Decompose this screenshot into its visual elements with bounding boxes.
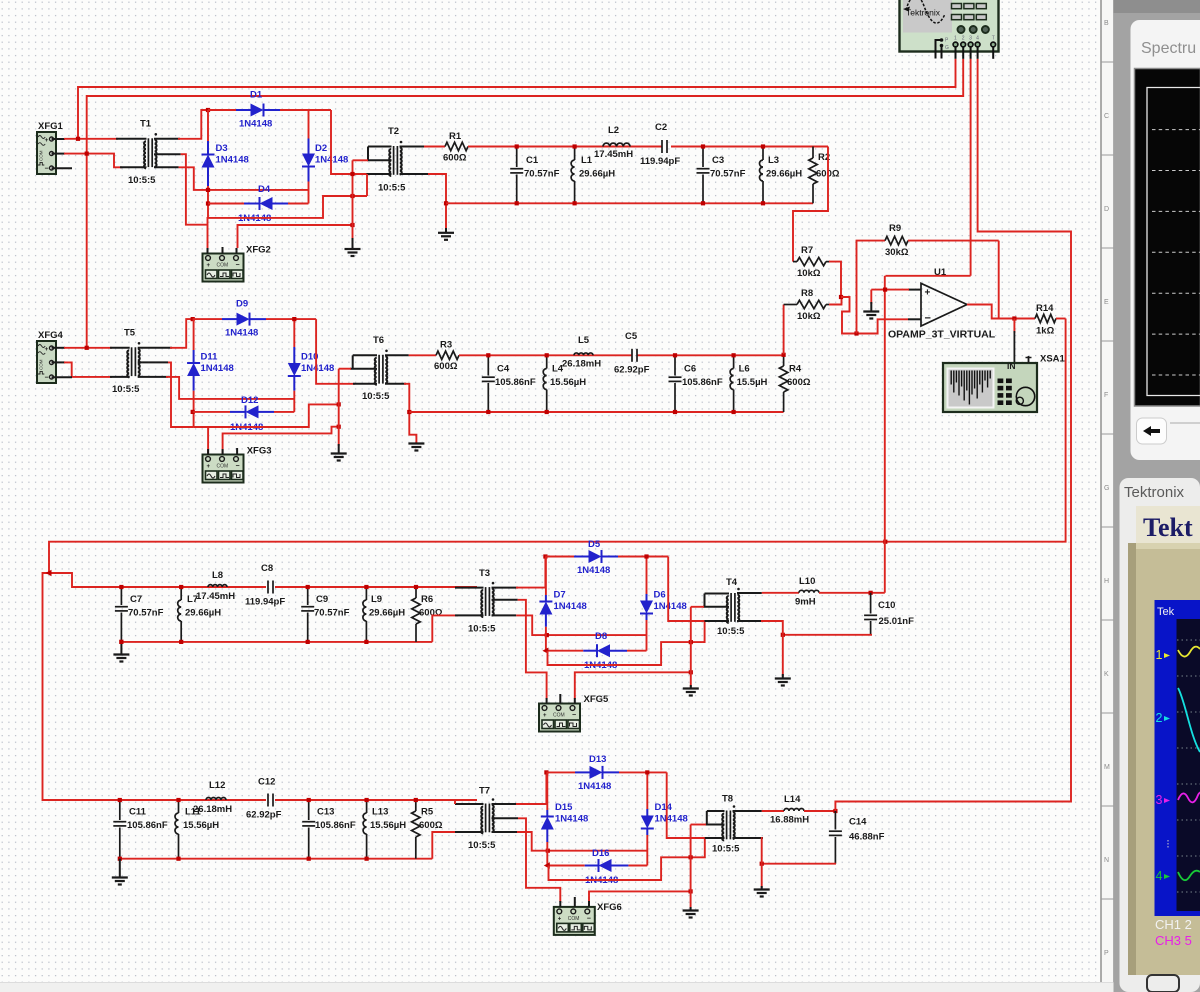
svg-text:15.56µH: 15.56µH bbox=[550, 377, 586, 388]
svg-text:−: − bbox=[236, 463, 240, 470]
inductor L13 15.56uH bbox=[366, 800, 368, 813]
wire T8 primary bottom from ring4 bbox=[705, 837, 725, 839]
scope waveform ch4 green bbox=[1178, 871, 1200, 881]
svg-text:Tektronix: Tektronix bbox=[1124, 484, 1185, 501]
scope waveform ch3 magenta bbox=[1178, 792, 1200, 802]
wire T8 primary top tie bbox=[707, 810, 725, 812]
wire row1 output to R7 bbox=[793, 147, 828, 262]
svg-text:D13: D13 bbox=[589, 754, 606, 765]
svg-text:G: G bbox=[945, 45, 949, 51]
svg-text:IN: IN bbox=[1007, 361, 1016, 371]
inductor L3 29.66uH bbox=[762, 147, 764, 161]
svg-text:70.57nF: 70.57nF bbox=[314, 608, 350, 619]
ground under T2 bbox=[445, 228, 447, 233]
svg-text:T7: T7 bbox=[479, 786, 490, 797]
node ring4 D14 top bbox=[645, 770, 649, 774]
wire XFG1 - stub bbox=[52, 167, 73, 169]
wire XFG3 left pin rail H3 row2 bbox=[207, 427, 209, 455]
capacitor C12 62.92pF (series) bbox=[267, 794, 269, 807]
diode D15 1N4148 (vertical) bbox=[546, 772, 548, 810]
inductor L5 26.18mH (series) bbox=[574, 353, 593, 355]
tektronix oscilloscope window bbox=[1120, 478, 1200, 992]
wire T5 center tap to H3 rail bbox=[138, 361, 168, 363]
diode D13 1N4148 bbox=[575, 771, 590, 773]
svg-text:17.45mH: 17.45mH bbox=[196, 591, 235, 602]
svg-text:C13: C13 bbox=[317, 807, 334, 818]
svg-text:C2: C2 bbox=[655, 122, 667, 133]
svg-text:4: 4 bbox=[976, 36, 979, 42]
svg-text:+: + bbox=[543, 713, 547, 719]
function generator XFG2 bbox=[203, 254, 244, 282]
svg-text:10:5:5: 10:5:5 bbox=[378, 183, 406, 194]
diode D9 1N4148 bbox=[222, 318, 237, 320]
svg-text:C7: C7 bbox=[130, 594, 142, 605]
svg-text:C12: C12 bbox=[258, 777, 275, 788]
transformer T5 bbox=[131, 347, 133, 376]
wire T2 secondary top to R1 bbox=[400, 146, 425, 148]
svg-text:D3: D3 bbox=[216, 143, 228, 154]
svg-text:−: − bbox=[45, 375, 49, 382]
svg-text:R7: R7 bbox=[801, 245, 813, 256]
svg-text:+: + bbox=[207, 464, 211, 470]
svg-text:1N4148: 1N4148 bbox=[655, 814, 688, 825]
svg-text:L13: L13 bbox=[372, 807, 388, 818]
wire T2 center tap to ground bbox=[367, 159, 392, 161]
wire rail3 to T3 primary top bbox=[455, 587, 484, 589]
svg-text:2: 2 bbox=[1156, 711, 1163, 725]
wire T6 primary top tie bbox=[353, 354, 377, 356]
svg-text:C14: C14 bbox=[849, 817, 867, 828]
node ring2 top-left bbox=[191, 317, 195, 321]
inductor L7 29.66uH bbox=[180, 587, 182, 600]
diode D10 1N4148 (vertical) bbox=[293, 319, 295, 347]
wire ring4 top rail bbox=[546, 771, 575, 773]
svg-text:10:5:5: 10:5:5 bbox=[468, 624, 496, 635]
wire D10 anode down to D12 rail bbox=[293, 391, 295, 412]
transformer T7 bbox=[485, 804, 487, 833]
scope bottom button bbox=[1147, 975, 1179, 992]
svg-text:L8: L8 bbox=[212, 570, 223, 581]
node feed to opamp+ tap bbox=[883, 540, 887, 544]
svg-text:26.18mH: 26.18mH bbox=[562, 359, 601, 370]
svg-text:105.86nF: 105.86nF bbox=[495, 377, 536, 388]
wire top bus 2 (scope ch2) bbox=[87, 59, 964, 348]
node feedback junction bbox=[854, 331, 858, 335]
sheet border column bbox=[1101, 0, 1114, 982]
svg-text:XFG4: XFG4 bbox=[38, 330, 64, 341]
svg-text:1N4148: 1N4148 bbox=[201, 363, 234, 374]
inductor L11 15.56uH bbox=[178, 800, 180, 813]
wire row3 filter top rail bbox=[72, 586, 266, 588]
transformer T6 bbox=[378, 355, 380, 384]
svg-text:L14: L14 bbox=[784, 794, 801, 805]
capacitor C4 105.86nF bbox=[487, 355, 489, 375]
svg-text:70.57nF: 70.57nF bbox=[710, 169, 746, 180]
svg-text:P: P bbox=[1104, 950, 1109, 957]
wire feed from scope/XSA down to row4 bbox=[835, 59, 1071, 811]
svg-text:15.56µH: 15.56µH bbox=[183, 820, 219, 831]
capacitor C10 25.01nF bbox=[870, 593, 872, 614]
svg-text:29.66µH: 29.66µH bbox=[766, 169, 802, 180]
svg-text:Tekt: Tekt bbox=[1143, 513, 1193, 542]
node D15 H1 crossing bbox=[546, 849, 550, 853]
wire ring1 right corner to T2 bottom bbox=[331, 110, 367, 174]
svg-text:D15: D15 bbox=[555, 802, 573, 813]
svg-text:D12: D12 bbox=[241, 395, 258, 406]
svg-text:T5: T5 bbox=[124, 328, 136, 339]
svg-text:15.5µH: 15.5µH bbox=[737, 377, 768, 388]
svg-text:L12: L12 bbox=[209, 780, 225, 791]
capacitor C5 62.92pF (series) bbox=[631, 349, 633, 362]
resistor R6 600ohm bbox=[415, 587, 417, 598]
wire ring2 right corner to T6 bottom bbox=[316, 319, 355, 384]
ground at opamp + bbox=[870, 290, 872, 304]
svg-text:R1: R1 bbox=[449, 131, 462, 142]
svg-text:R3: R3 bbox=[440, 340, 452, 351]
wire H3 rail row4 to T8 bbox=[549, 838, 705, 880]
tektronix logo strip bbox=[1136, 506, 1200, 543]
wire row2 filter top rail bbox=[459, 354, 632, 356]
wire XFG1 COM to T1 bottom bbox=[52, 153, 66, 155]
svg-text:1N4148: 1N4148 bbox=[225, 328, 258, 339]
wire D3 anode to lower rails bbox=[207, 186, 209, 218]
svg-text:119.94pF: 119.94pF bbox=[245, 597, 285, 608]
transformer T2 bbox=[393, 146, 395, 175]
function generator XFG4 bbox=[37, 341, 56, 383]
wire ring3 top rail bbox=[545, 556, 574, 558]
wire R8 to sum node bbox=[829, 297, 842, 305]
wire R14 output long feed to demodulators bbox=[49, 319, 1066, 588]
oscilloscope front panel bbox=[1128, 543, 1200, 975]
wire T6 secondary bottom to ground bus row2 bbox=[385, 383, 406, 385]
svg-text:CH3 5: CH3 5 bbox=[1155, 933, 1192, 948]
spectrum analyzer XSA1 icon bbox=[943, 363, 1037, 412]
svg-text:H: H bbox=[1104, 578, 1109, 585]
resistor R2 600ohm bbox=[812, 147, 814, 159]
node H3 row4 stem crossing bbox=[689, 855, 693, 859]
wire row3 bottom bus bbox=[121, 641, 432, 643]
svg-text:R9: R9 bbox=[889, 223, 901, 234]
wire C14 return rail bbox=[762, 863, 836, 865]
svg-text:D14: D14 bbox=[655, 802, 673, 813]
wire T1 secondary top to ring bbox=[154, 138, 180, 140]
op-amp U1 OPAMP_3T_VIRTUAL bbox=[921, 283, 967, 326]
canvas bottom scrollbar bbox=[0, 982, 1114, 992]
svg-text:10:5:5: 10:5:5 bbox=[128, 175, 156, 186]
svg-text:C10: C10 bbox=[878, 600, 895, 611]
wire row4 bottom bus bbox=[120, 858, 433, 860]
svg-text:L2: L2 bbox=[608, 125, 619, 136]
node bus2 XFG4+ bbox=[85, 346, 89, 350]
wire XFG1 + to T1 bbox=[52, 138, 66, 140]
XSA1 T pin stub bbox=[1028, 356, 1030, 363]
capacitor C14 46.88nF bbox=[834, 811, 836, 830]
svg-text:70.57nF: 70.57nF bbox=[128, 608, 164, 619]
node row1 bus at T2 bbox=[444, 201, 448, 205]
svg-text:E: E bbox=[1104, 299, 1109, 306]
svg-text:105.86nF: 105.86nF bbox=[127, 820, 168, 831]
inductor L6 15.56uH bbox=[733, 355, 735, 368]
svg-text:D6: D6 bbox=[654, 590, 666, 601]
svg-text:9mH: 9mH bbox=[795, 597, 816, 608]
resistor R4 600ohm bbox=[783, 355, 785, 366]
svg-text:D9: D9 bbox=[236, 299, 248, 310]
svg-text:COM: COM bbox=[553, 713, 565, 719]
svg-text:L3: L3 bbox=[768, 155, 779, 166]
svg-text:25.01nF: 25.01nF bbox=[879, 616, 915, 627]
svg-text:600Ω: 600Ω bbox=[443, 153, 467, 164]
wire feedback to output bbox=[998, 241, 1000, 319]
diode D6 1N4148 (vertical) bbox=[646, 557, 648, 595]
diode D11 1N4148 (vertical) bbox=[193, 319, 195, 350]
svg-text:L9: L9 bbox=[371, 594, 382, 605]
wire XSA1 IN drop bbox=[1013, 319, 1015, 334]
svg-text:1N4148: 1N4148 bbox=[577, 565, 610, 576]
svg-text:T1: T1 bbox=[140, 119, 152, 130]
svg-text:−: − bbox=[45, 166, 49, 173]
inductor L2 17.45mH (series) bbox=[603, 143, 630, 146]
spectrum back button bbox=[1137, 418, 1167, 444]
svg-text:R14: R14 bbox=[1036, 303, 1054, 314]
svg-text:1N4148: 1N4148 bbox=[301, 363, 334, 374]
inductor L1 29.66uH bbox=[574, 147, 576, 161]
diode D8 1N4148 (horizontal) bbox=[546, 650, 583, 652]
diode D2 1N4148 (vertical) bbox=[308, 110, 310, 139]
svg-text:3: 3 bbox=[969, 36, 972, 42]
svg-text:62.92pF: 62.92pF bbox=[614, 365, 650, 376]
svg-text:T: T bbox=[992, 36, 995, 42]
ground ring3 center bbox=[690, 685, 692, 689]
svg-text:29.66µH: 29.66µH bbox=[185, 608, 221, 619]
svg-text:Spectru: Spectru bbox=[1141, 40, 1196, 57]
wire XFG4 - stub bbox=[52, 376, 73, 378]
svg-text:COM: COM bbox=[39, 359, 44, 370]
node D4 rail start bbox=[206, 201, 210, 205]
svg-text:1N4148: 1N4148 bbox=[578, 781, 611, 792]
ground under C11 bbox=[119, 859, 121, 878]
svg-text:29.66µH: 29.66µH bbox=[579, 169, 615, 180]
wire T7 secondary bottom to H1 rail row4 bbox=[492, 831, 518, 833]
svg-text:Tek: Tek bbox=[1157, 606, 1175, 618]
node XFG5 rail stem junction bbox=[689, 670, 693, 674]
node opamp+ tap bbox=[883, 288, 887, 292]
wire bus4 to T7 primary bottom bbox=[432, 832, 458, 859]
svg-text:−: − bbox=[925, 313, 931, 325]
wire T6 primary bottom from ring2 bbox=[353, 383, 377, 385]
node T2 tangle dots bbox=[350, 172, 354, 176]
svg-text:70.57nF: 70.57nF bbox=[524, 169, 560, 180]
wire D15 anode down to D16 rail bbox=[546, 842, 548, 866]
node H5 ground stem crossing bbox=[350, 194, 354, 198]
resistor R9 30kohm (feedback) bbox=[857, 241, 886, 334]
wire D7 anode down to D8 rail bbox=[545, 627, 547, 651]
oscilloscope XSC1 icon (Tektronix) bbox=[900, 0, 999, 52]
wire bus3 to T3 primary bottom bbox=[432, 615, 458, 642]
wire T2 secondary bottom to ground bus bbox=[400, 173, 431, 175]
svg-text:COM: COM bbox=[568, 916, 580, 922]
node H5 row2 stem junction bbox=[337, 402, 341, 406]
svg-text:1N4148: 1N4148 bbox=[216, 155, 249, 166]
svg-text:1N4148: 1N4148 bbox=[555, 814, 588, 825]
svg-text:1N4148: 1N4148 bbox=[654, 601, 687, 612]
svg-text:10kΩ: 10kΩ bbox=[797, 311, 821, 322]
svg-text:D11: D11 bbox=[201, 352, 219, 363]
svg-text:10kΩ: 10kΩ bbox=[797, 268, 821, 279]
svg-text:R4: R4 bbox=[789, 364, 802, 375]
diode D14 1N4148 (vertical) bbox=[646, 772, 648, 809]
svg-text:119.94pF: 119.94pF bbox=[640, 156, 680, 167]
wire T8 center tap to ground bbox=[705, 824, 725, 826]
svg-text:T6: T6 bbox=[373, 335, 384, 346]
svg-text:1: 1 bbox=[1156, 648, 1163, 662]
svg-text:T8: T8 bbox=[722, 794, 733, 805]
wire T3 secondary bottom to H1 rail row3 bbox=[492, 614, 517, 616]
svg-text:−: − bbox=[572, 712, 576, 719]
wire XFG5 right pin rail bbox=[575, 672, 691, 699]
ground for T6 center tap bbox=[338, 444, 340, 454]
function generator XFG5 bbox=[539, 704, 580, 732]
wire T4 center tap to ground bbox=[703, 606, 729, 608]
wire D6 anode down to D8 rail bbox=[646, 620, 648, 651]
svg-text:OPAMP_3T_VIRTUAL: OPAMP_3T_VIRTUAL bbox=[888, 329, 996, 341]
svg-text:46.88nF: 46.88nF bbox=[849, 832, 885, 843]
svg-text:+: + bbox=[925, 288, 931, 299]
svg-text:30kΩ: 30kΩ bbox=[885, 247, 909, 258]
inductor L4 15.56uH bbox=[546, 355, 548, 368]
node D7 H1 crossing bbox=[545, 633, 549, 637]
transformer T3 bbox=[485, 587, 487, 616]
svg-text:COM: COM bbox=[217, 263, 229, 269]
svg-text:D: D bbox=[1104, 206, 1109, 213]
capacitor C13 105.86nF bbox=[308, 800, 310, 820]
wire T6 center tap to ground bbox=[350, 368, 377, 370]
wire XFG3 mid pin rail H4 row2 bbox=[223, 427, 339, 455]
wire scope ch3 drop bbox=[970, 59, 972, 276]
svg-text:D16: D16 bbox=[592, 848, 609, 859]
wire ring4 right corner to T8 bottom bbox=[667, 772, 706, 838]
node sum junction bbox=[839, 295, 843, 299]
wire T4 primary bottom from ring3 bbox=[705, 620, 730, 622]
node output R14 junction bbox=[1012, 316, 1016, 320]
wire opamp output bbox=[967, 305, 1035, 319]
wire T3 center tap to XFG5 left pin bbox=[492, 599, 518, 601]
svg-text:26.18mH: 26.18mH bbox=[193, 804, 232, 815]
wire T6 secondary top to R3 bbox=[385, 354, 409, 356]
function generator XFG6 bbox=[554, 907, 595, 935]
node H3 stem crossing bbox=[689, 640, 693, 644]
svg-text:+: + bbox=[558, 916, 562, 922]
svg-text:G: G bbox=[1104, 485, 1109, 492]
svg-text:C4: C4 bbox=[497, 364, 510, 375]
wire T5 secondary bottom to ring2 rail bbox=[138, 376, 168, 378]
function generator XFG1 bbox=[37, 132, 56, 174]
spectrum display bbox=[1135, 69, 1200, 407]
svg-text:600Ω: 600Ω bbox=[787, 377, 811, 388]
svg-text:M: M bbox=[1104, 764, 1110, 771]
wire feed branch to row4 bbox=[43, 573, 120, 800]
wire T1 center tap to XFG2 net bbox=[154, 153, 181, 155]
svg-text:C: C bbox=[1104, 113, 1109, 120]
resistor R14 1kohm bbox=[1035, 314, 1056, 322]
inductor L14 16.88mH (series) bbox=[784, 809, 804, 812]
svg-text:D4: D4 bbox=[258, 184, 271, 195]
svg-text:C1: C1 bbox=[526, 155, 539, 166]
svg-text:10:5:5: 10:5:5 bbox=[468, 840, 496, 851]
svg-text:+: + bbox=[45, 346, 49, 353]
node XFG6 rail stem junction bbox=[689, 889, 693, 893]
svg-text:4: 4 bbox=[1156, 869, 1163, 883]
inductor L8 17.45mH (series) bbox=[208, 585, 227, 587]
wire row1 filter top rail bbox=[468, 146, 662, 148]
wire U1 scope rail bbox=[886, 275, 971, 277]
svg-text:2: 2 bbox=[962, 36, 965, 42]
svg-text:L10: L10 bbox=[799, 576, 815, 587]
wire L10 to C10 node and opamp+ bbox=[819, 592, 885, 594]
wire R4 to R8 bbox=[783, 305, 785, 355]
resistor R1 600ohm bbox=[445, 142, 468, 150]
svg-text:16.88mH: 16.88mH bbox=[770, 815, 809, 826]
wire opamp - input black bbox=[908, 318, 921, 320]
svg-text:105.86nF: 105.86nF bbox=[682, 377, 723, 388]
svg-text:L5: L5 bbox=[578, 335, 590, 346]
inductor L9 29.66uH bbox=[365, 587, 367, 600]
svg-text:F: F bbox=[1104, 392, 1108, 399]
svg-text:1N4148: 1N4148 bbox=[554, 601, 587, 612]
scope waveform ch2 cyan bbox=[1178, 688, 1200, 752]
diode D12 1N4148 (horizontal) bbox=[193, 411, 230, 413]
svg-text:15.56µH: 15.56µH bbox=[370, 820, 406, 831]
resistor R7 10kohm bbox=[793, 261, 797, 263]
svg-text:D5: D5 bbox=[588, 539, 601, 550]
node ring3 D6 top bbox=[644, 554, 648, 558]
diode D16 1N4148 (horizontal) bbox=[547, 865, 584, 867]
wire H3 rail row3 to T4 bbox=[548, 621, 705, 665]
svg-text:T3: T3 bbox=[479, 568, 490, 579]
capacitor C1 70.57nF bbox=[516, 147, 518, 168]
svg-text:10:5:5: 10:5:5 bbox=[362, 391, 390, 402]
capacitor C3 70.57nF bbox=[702, 147, 704, 168]
svg-text:1kΩ: 1kΩ bbox=[1036, 326, 1055, 337]
diode D3 1N4148 (vertical) bbox=[207, 110, 209, 141]
svg-text:XFG1: XFG1 bbox=[38, 121, 64, 132]
svg-text:C6: C6 bbox=[684, 364, 696, 375]
inductor L10 9mH (series) bbox=[799, 590, 819, 593]
svg-text:XFG3: XFG3 bbox=[247, 446, 272, 457]
svg-text:10:5:5: 10:5:5 bbox=[112, 384, 140, 395]
node D12 rail start bbox=[191, 410, 195, 414]
wire XFG6 right pin rail bbox=[589, 891, 691, 902]
transformer T1 bbox=[147, 138, 149, 167]
transformer T8 bbox=[726, 811, 728, 840]
svg-text:C11: C11 bbox=[129, 807, 147, 818]
wire to ground under T8 output bbox=[761, 864, 763, 888]
ground under T6 secondary bbox=[408, 442, 424, 444]
wire T5 secondary top to ring2 bbox=[138, 347, 172, 349]
node D3 H1 crossing bbox=[206, 188, 210, 192]
node row2 bus at T6 bbox=[407, 410, 411, 414]
resistor R8 10kohm bbox=[784, 304, 797, 306]
svg-text:T4: T4 bbox=[726, 577, 738, 588]
wire D14 anode down to D16 rail bbox=[646, 835, 648, 866]
wire top bus 1 (scope ch1) bbox=[78, 59, 956, 139]
diode D4 1N4148 (horizontal) bbox=[208, 203, 244, 205]
transformer T4 bbox=[730, 593, 732, 622]
svg-text:R8: R8 bbox=[801, 288, 813, 299]
svg-text:B: B bbox=[1104, 20, 1109, 27]
capacitor C11 105.86nF bbox=[119, 800, 121, 820]
svg-text:+: + bbox=[45, 137, 49, 144]
diode D1 1N4148 bbox=[236, 109, 251, 111]
